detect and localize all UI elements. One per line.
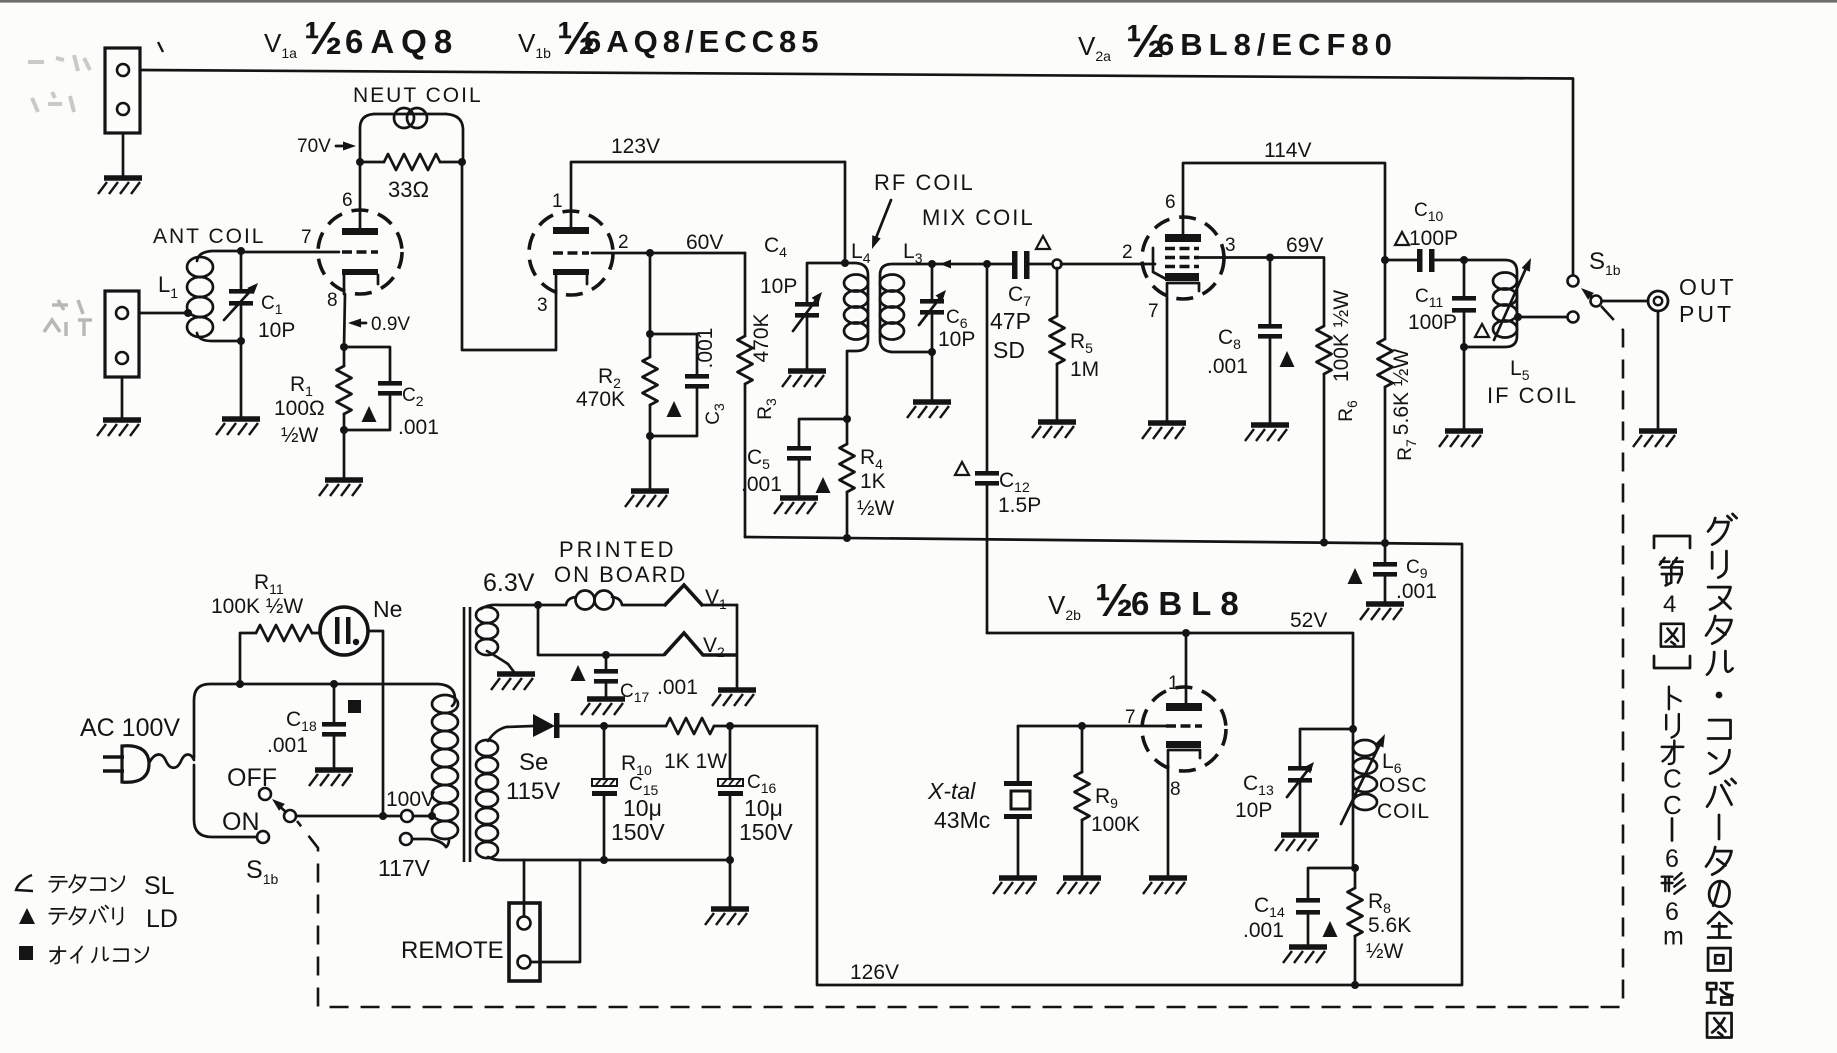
- node R5 (open): [1053, 260, 1062, 269]
- tube V1b triode: [529, 211, 613, 295]
- marker triangle C11: [1475, 324, 1489, 337]
- ground: [782, 371, 826, 387]
- wire output to ground: [1657, 311, 1660, 429]
- ground: [1032, 422, 1076, 438]
- marker triangle C8: [1280, 351, 1295, 367]
- wire wiper to output: [1602, 300, 1648, 303]
- svg-text:7: 7: [301, 227, 312, 248]
- marker square C18: [348, 700, 361, 713]
- inductor L3: [880, 264, 932, 352]
- svg-text:.001: .001: [267, 734, 308, 757]
- ground: [774, 498, 818, 514]
- svg-text:470K: 470K: [576, 388, 625, 411]
- svg-text:1M: 1M: [1070, 358, 1099, 381]
- node C11 top: [1460, 256, 1468, 264]
- wire V2a plate to 114V rail: [1183, 163, 1385, 339]
- node C18 junction: [330, 680, 338, 688]
- marker triangle C14: [1323, 921, 1338, 937]
- wire 123V rail down to L4: [844, 162, 847, 263]
- node R4 bus: [843, 534, 851, 542]
- ground: [491, 674, 535, 690]
- svg-text:6: 6: [1665, 845, 1679, 873]
- marker triangle C2: [362, 406, 377, 422]
- node 60V R2: [646, 249, 654, 257]
- ground: [1275, 835, 1319, 851]
- node R2 C3 top: [646, 330, 654, 338]
- transformer T1 HV winding: [476, 726, 533, 916]
- ground: [1360, 604, 1404, 620]
- node primary tap: [428, 812, 436, 820]
- ground: [216, 419, 260, 435]
- inductor L6 OSC coil: [1341, 729, 1389, 868]
- svg-text:NEUT COIL: NEUT COIL: [353, 84, 483, 107]
- node L1 tap: [184, 309, 192, 317]
- node L3 top: [928, 260, 936, 268]
- capacitor C3: [650, 334, 709, 436]
- wire plate pin1: [1185, 633, 1188, 703]
- node C15 bottom: [600, 856, 608, 864]
- node R11 junction: [236, 680, 244, 688]
- svg-text:ON BOARD: ON BOARD: [554, 562, 687, 587]
- svg-text:AC 100V: AC 100V: [80, 714, 180, 742]
- svg-text:LD: LD: [146, 905, 178, 933]
- legend text oilcon: [50, 947, 66, 964]
- node C8: [1266, 254, 1274, 262]
- svg-text:4: 4: [1663, 591, 1676, 618]
- node C11 bottom: [1460, 343, 1468, 351]
- wire top bus from J1 to S1b: [140, 70, 1573, 275]
- svg-text:126V: 126V: [850, 961, 899, 984]
- inductor NEUT COIL: [360, 108, 463, 162]
- svg-text:114V: 114V: [1264, 139, 1312, 162]
- svg-text:½W: ½W: [857, 497, 895, 520]
- svg-text:10P: 10P: [938, 328, 975, 351]
- svg-text:150V: 150V: [611, 819, 665, 845]
- connector J1 (converter input terminal): [105, 48, 140, 133]
- resistor R8: [1348, 868, 1363, 985]
- connector J2 6m ANT: [105, 291, 139, 377]
- svg-text:123V: 123V: [611, 135, 660, 158]
- wire J1 to ground: [122, 133, 125, 176]
- wire to V2a grid: [1061, 263, 1155, 266]
- wire 52V line: [987, 633, 1353, 729]
- capacitor C8: [1258, 258, 1282, 424]
- svg-text:6AQ8/ECC85: 6AQ8/ECC85: [584, 24, 824, 59]
- svg-text:.001: .001: [657, 676, 698, 699]
- capacitor C18: [322, 684, 346, 768]
- wire L5 tap to switch contact: [1518, 316, 1567, 319]
- node Ne junction: [379, 812, 387, 820]
- resistor R3: [738, 253, 753, 537]
- svg-text:IF COIL: IF COIL: [1487, 383, 1578, 408]
- svg-text:½W: ½W: [281, 424, 319, 447]
- svg-text:0.9V: 0.9V: [371, 314, 410, 335]
- svg-text:10P: 10P: [760, 275, 797, 298]
- ground: [1283, 947, 1327, 963]
- svg-text:470K: 470K: [750, 313, 773, 362]
- ground: [97, 420, 141, 436]
- svg-text:6AQ8: 6AQ8: [345, 23, 459, 60]
- svg-text:OSC: OSC: [1379, 774, 1428, 797]
- svg-text:.001: .001: [694, 328, 717, 369]
- svg-text:100P: 100P: [1408, 311, 1457, 334]
- node L6 bottom: [1351, 864, 1359, 872]
- svg-text:C: C: [1663, 764, 1682, 794]
- ground: [98, 178, 142, 194]
- ground: [712, 690, 756, 706]
- ground: [1143, 878, 1187, 894]
- capacitor C12: [975, 264, 999, 633]
- inductor L1: [187, 251, 241, 341]
- capacitor C1 variable: [224, 252, 261, 417]
- svg-text:1: 1: [552, 191, 563, 212]
- wire B- bus: [745, 537, 1462, 985]
- wire 100V tap stub: [413, 815, 432, 818]
- svg-text:8: 8: [327, 290, 338, 311]
- resistor R11: [240, 625, 320, 683]
- svg-text:7: 7: [1148, 301, 1159, 322]
- marker triangle C9: [1348, 568, 1363, 584]
- legend row3 square: [19, 946, 33, 960]
- faint ANT marks: [44, 300, 92, 336]
- marker triangle C17: [571, 665, 586, 681]
- svg-text:47P: 47P: [990, 308, 1031, 334]
- heater V2: [664, 633, 737, 655]
- capacitor C4 variable: [793, 263, 845, 369]
- svg-text:10μ: 10μ: [744, 795, 783, 821]
- svg-text:m: m: [1663, 923, 1684, 951]
- wire V2a screen 69V: [1199, 258, 1324, 327]
- svg-text:SD: SD: [993, 337, 1025, 363]
- svg-text:100K: 100K: [1091, 813, 1140, 836]
- svg-text:5.6K ½W: 5.6K ½W: [1390, 349, 1413, 436]
- svg-text:Se: Se: [519, 749, 548, 776]
- svg-text:52V: 52V: [1290, 609, 1327, 632]
- wire node to V1a plate: [359, 162, 362, 228]
- wire V1a grid to ant coil: [241, 251, 339, 254]
- resistor R10: [666, 718, 817, 734]
- switch S1a wiper: [269, 796, 296, 822]
- scan edge artifact top: [0, 0, 1837, 3]
- node R7 C9 bus: [1381, 539, 1389, 547]
- tube V1a triode: [318, 210, 402, 294]
- node C16 top: [726, 722, 734, 730]
- ground: [1142, 423, 1186, 439]
- ground: [309, 770, 353, 786]
- transformer T1 heater winding 6.3V: [476, 605, 538, 672]
- svg-text:3: 3: [1225, 235, 1236, 256]
- svg-text:2: 2: [1122, 242, 1133, 263]
- wire AC lower branch: [194, 765, 257, 837]
- capacitor C6 variable: [919, 264, 949, 400]
- node R8 bus: [1351, 981, 1359, 989]
- node C15 top: [600, 722, 608, 730]
- node C10 tap: [1381, 256, 1389, 264]
- faint scan marks: [28, 55, 90, 112]
- plug AC: [103, 746, 194, 783]
- legend text titabari LD: [49, 909, 67, 924]
- switch S1a contact OFF: [259, 788, 271, 800]
- legend text titacon SL: [49, 877, 67, 892]
- connector OUTPUT jack: [1648, 291, 1668, 311]
- wire PSU ground bus: [524, 860, 730, 907]
- ground: [625, 491, 669, 507]
- resistor R4: [840, 419, 855, 538]
- legend titacon SL: [16, 875, 33, 891]
- svg-text:1K: 1K: [860, 470, 886, 493]
- node ant coil top: [237, 247, 245, 255]
- node C12 tap: [983, 260, 991, 268]
- svg-text:MIX COIL: MIX COIL: [922, 205, 1035, 230]
- margin caption No.4 Trio CC-6 6m: [1654, 536, 1690, 951]
- svg-text:10P: 10P: [258, 319, 295, 342]
- lamp Ne neon: [320, 607, 368, 655]
- svg-text:ON: ON: [222, 808, 260, 836]
- svg-text:100P: 100P: [1409, 227, 1458, 250]
- capacitor C14: [1296, 868, 1355, 945]
- svg-text:10P: 10P: [1235, 799, 1272, 822]
- svg-text:115V: 115V: [506, 778, 560, 805]
- switch S1b wiper: [1578, 285, 1601, 307]
- svg-text:PRINTED: PRINTED: [559, 537, 677, 562]
- marker triangle C10: [1395, 232, 1409, 245]
- svg-text:PUT: PUT: [1679, 301, 1734, 327]
- svg-text:33Ω: 33Ω: [388, 177, 429, 202]
- svg-text:69V: 69V: [1286, 234, 1323, 257]
- node R6 bus: [1320, 539, 1328, 547]
- svg-text:COIL: COIL: [1377, 800, 1430, 823]
- svg-text:100K ½W: 100K ½W: [211, 595, 303, 618]
- svg-text:150V: 150V: [739, 819, 793, 845]
- resistor R9: [1075, 726, 1090, 876]
- svg-text:.001: .001: [1396, 580, 1437, 603]
- heater V1: [664, 585, 737, 606]
- ground: [581, 699, 625, 715]
- svg-text:6BL8/ECF80: 6BL8/ECF80: [1157, 27, 1398, 62]
- wire V2b cathode ground: [1167, 771, 1170, 876]
- svg-text:8: 8: [1170, 779, 1181, 800]
- svg-text:.001: .001: [1207, 355, 1248, 378]
- svg-text:60V: 60V: [686, 231, 723, 254]
- svg-text:3: 3: [537, 295, 548, 316]
- wire J2 to L1 tap: [139, 312, 187, 315]
- inductor L5 IF coil: [1464, 256, 1535, 347]
- connector REMOTE: [509, 903, 540, 981]
- svg-text:6: 6: [342, 190, 353, 211]
- legend row2 triangle: [19, 908, 35, 924]
- ground: [1245, 425, 1289, 441]
- node osc top: [1349, 725, 1357, 733]
- svg-text:X-tal: X-tal: [927, 778, 976, 804]
- node R1 C2 bottom: [340, 426, 348, 434]
- ground: [993, 878, 1037, 894]
- resistor R6: [1317, 326, 1332, 542]
- svg-text:10μ: 10μ: [623, 795, 662, 821]
- svg-text:.001: .001: [741, 473, 782, 496]
- node R9: [1078, 722, 1086, 730]
- node 6.3V: [534, 601, 542, 609]
- tube V2a pentode: [1142, 217, 1224, 299]
- node cathode R1 C2: [340, 343, 348, 351]
- marker triangle C3: [667, 401, 682, 417]
- svg-text:SL: SL: [144, 872, 175, 900]
- switch S1b lower contact: [1568, 312, 1579, 323]
- wire V1a cathode down: [344, 294, 345, 347]
- resistor R5: [1050, 268, 1065, 420]
- svg-text:43Mc: 43Mc: [934, 807, 990, 833]
- wire V2b grid left: [1018, 725, 1166, 728]
- svg-text:70V: 70V: [297, 136, 331, 157]
- ground: [1057, 878, 1101, 894]
- svg-text:½: ½: [304, 12, 342, 64]
- wire Ne to 100V line: [368, 631, 383, 816]
- wire V1b cathode to 33ohm node: [462, 162, 556, 350]
- node L5 tap: [1514, 313, 1522, 321]
- ground: [1633, 431, 1677, 447]
- capacitor C9: [1373, 543, 1397, 602]
- resistor R7: [1378, 339, 1393, 543]
- resistor R1: [337, 347, 352, 478]
- wire heater lower branch: [538, 605, 737, 688]
- svg-text:.001: .001: [1243, 919, 1284, 942]
- ground: [907, 402, 951, 418]
- wire V1b grid 60V: [592, 252, 745, 255]
- svg-text:6BL8: 6BL8: [1131, 585, 1248, 622]
- resistor R2: [643, 253, 658, 489]
- svg-text:REMOTE: REMOTE: [401, 937, 504, 964]
- node V2b plate: [1182, 629, 1190, 637]
- svg-text:6: 6: [1165, 192, 1176, 213]
- ground: [705, 909, 749, 925]
- label 70V with arrow: [297, 136, 356, 157]
- switch S1b top contact: [1568, 276, 1579, 287]
- ground: [319, 480, 363, 496]
- node L3 bottom: [928, 348, 936, 356]
- tube V2b triode: [1142, 687, 1226, 771]
- svg-text:1K 1W: 1K 1W: [664, 750, 727, 773]
- svg-text:100K ½W: 100K ½W: [1330, 290, 1353, 382]
- svg-text:2: 2: [618, 232, 629, 253]
- svg-text:117V: 117V: [378, 855, 431, 881]
- node C17: [602, 651, 610, 659]
- marker triangle C12: [955, 462, 969, 475]
- capacitor C5: [787, 419, 847, 496]
- margin title crystal converter zenkairozu: [1706, 514, 1737, 1038]
- svg-text:100V: 100V: [386, 788, 435, 811]
- ground: [1439, 431, 1483, 447]
- transformer T1 primary: [432, 695, 458, 847]
- node C16 bottom: [726, 856, 734, 864]
- svg-text:Ne: Ne: [373, 596, 402, 622]
- capacitor C11: [1452, 260, 1476, 429]
- svg-text:OUT: OUT: [1679, 274, 1737, 300]
- crystal X-tal 43Mc: [1004, 726, 1032, 876]
- node L4 bottom R4: [843, 415, 851, 423]
- capacitor C15 electrolytic: [592, 726, 617, 860]
- node neut/33 right: [458, 158, 466, 166]
- capacitor C17: [594, 655, 618, 697]
- wire V1b plate to 123V rail: [571, 162, 845, 227]
- marker triangle C7: [1036, 236, 1050, 249]
- svg-text:.001: .001: [398, 416, 439, 439]
- node 70V: [356, 158, 364, 166]
- wire 117V to primary bottom: [412, 839, 446, 847]
- svg-text:ANT COIL: ANT COIL: [153, 225, 265, 248]
- node L4 plate: [841, 259, 849, 267]
- node ant coil bottom: [237, 337, 245, 345]
- wire wiper to 100V tap: [296, 815, 401, 818]
- marker triangle C5: [816, 477, 831, 493]
- wire AC upper branch: [194, 684, 455, 758]
- diode Se rectifier: [533, 713, 666, 738]
- svg-text:½: ½: [1095, 574, 1133, 626]
- capacitor C7: [1012, 251, 1052, 279]
- switch S1a contact ON: [257, 831, 269, 843]
- svg-text:1.5P: 1.5P: [998, 494, 1041, 517]
- svg-text:C: C: [1663, 790, 1682, 820]
- inductor L4: [844, 263, 868, 419]
- svg-text:½W: ½W: [1366, 940, 1404, 963]
- svg-text:100Ω: 100Ω: [274, 397, 325, 420]
- svg-text:RF COIL: RF COIL: [874, 170, 975, 195]
- capacitor C16 electrolytic: [718, 726, 743, 860]
- transformer T1 core: [464, 607, 470, 862]
- wire J2 to ground: [121, 377, 124, 418]
- capacitor C13 variable: [1287, 729, 1353, 833]
- node R2 C3 bottom: [646, 432, 654, 440]
- wire L3 to C7 with arrow: [932, 260, 1012, 269]
- wire REMOTE return: [531, 860, 580, 962]
- label 0.9V with arrow: [348, 314, 410, 335]
- wire V2a cathode to ground: [1166, 299, 1169, 421]
- terminal 117V: [400, 833, 412, 845]
- inductor heater choke: [538, 591, 664, 610]
- svg-text:6.3V: 6.3V: [483, 569, 535, 597]
- svg-text:1: 1: [1168, 673, 1179, 694]
- stray tick mark: [158, 42, 163, 52]
- dashed gang coupling: [297, 306, 1623, 1007]
- svg-text:5.6K: 5.6K: [1368, 914, 1411, 937]
- label RF COIL with arrow: [868, 170, 975, 251]
- resistor 33ohm: [360, 154, 463, 170]
- capacitor C10: [1385, 249, 1464, 272]
- svg-text:OFF: OFF: [227, 764, 277, 792]
- capacitor C2: [344, 347, 402, 430]
- terminal 100V: [401, 810, 413, 822]
